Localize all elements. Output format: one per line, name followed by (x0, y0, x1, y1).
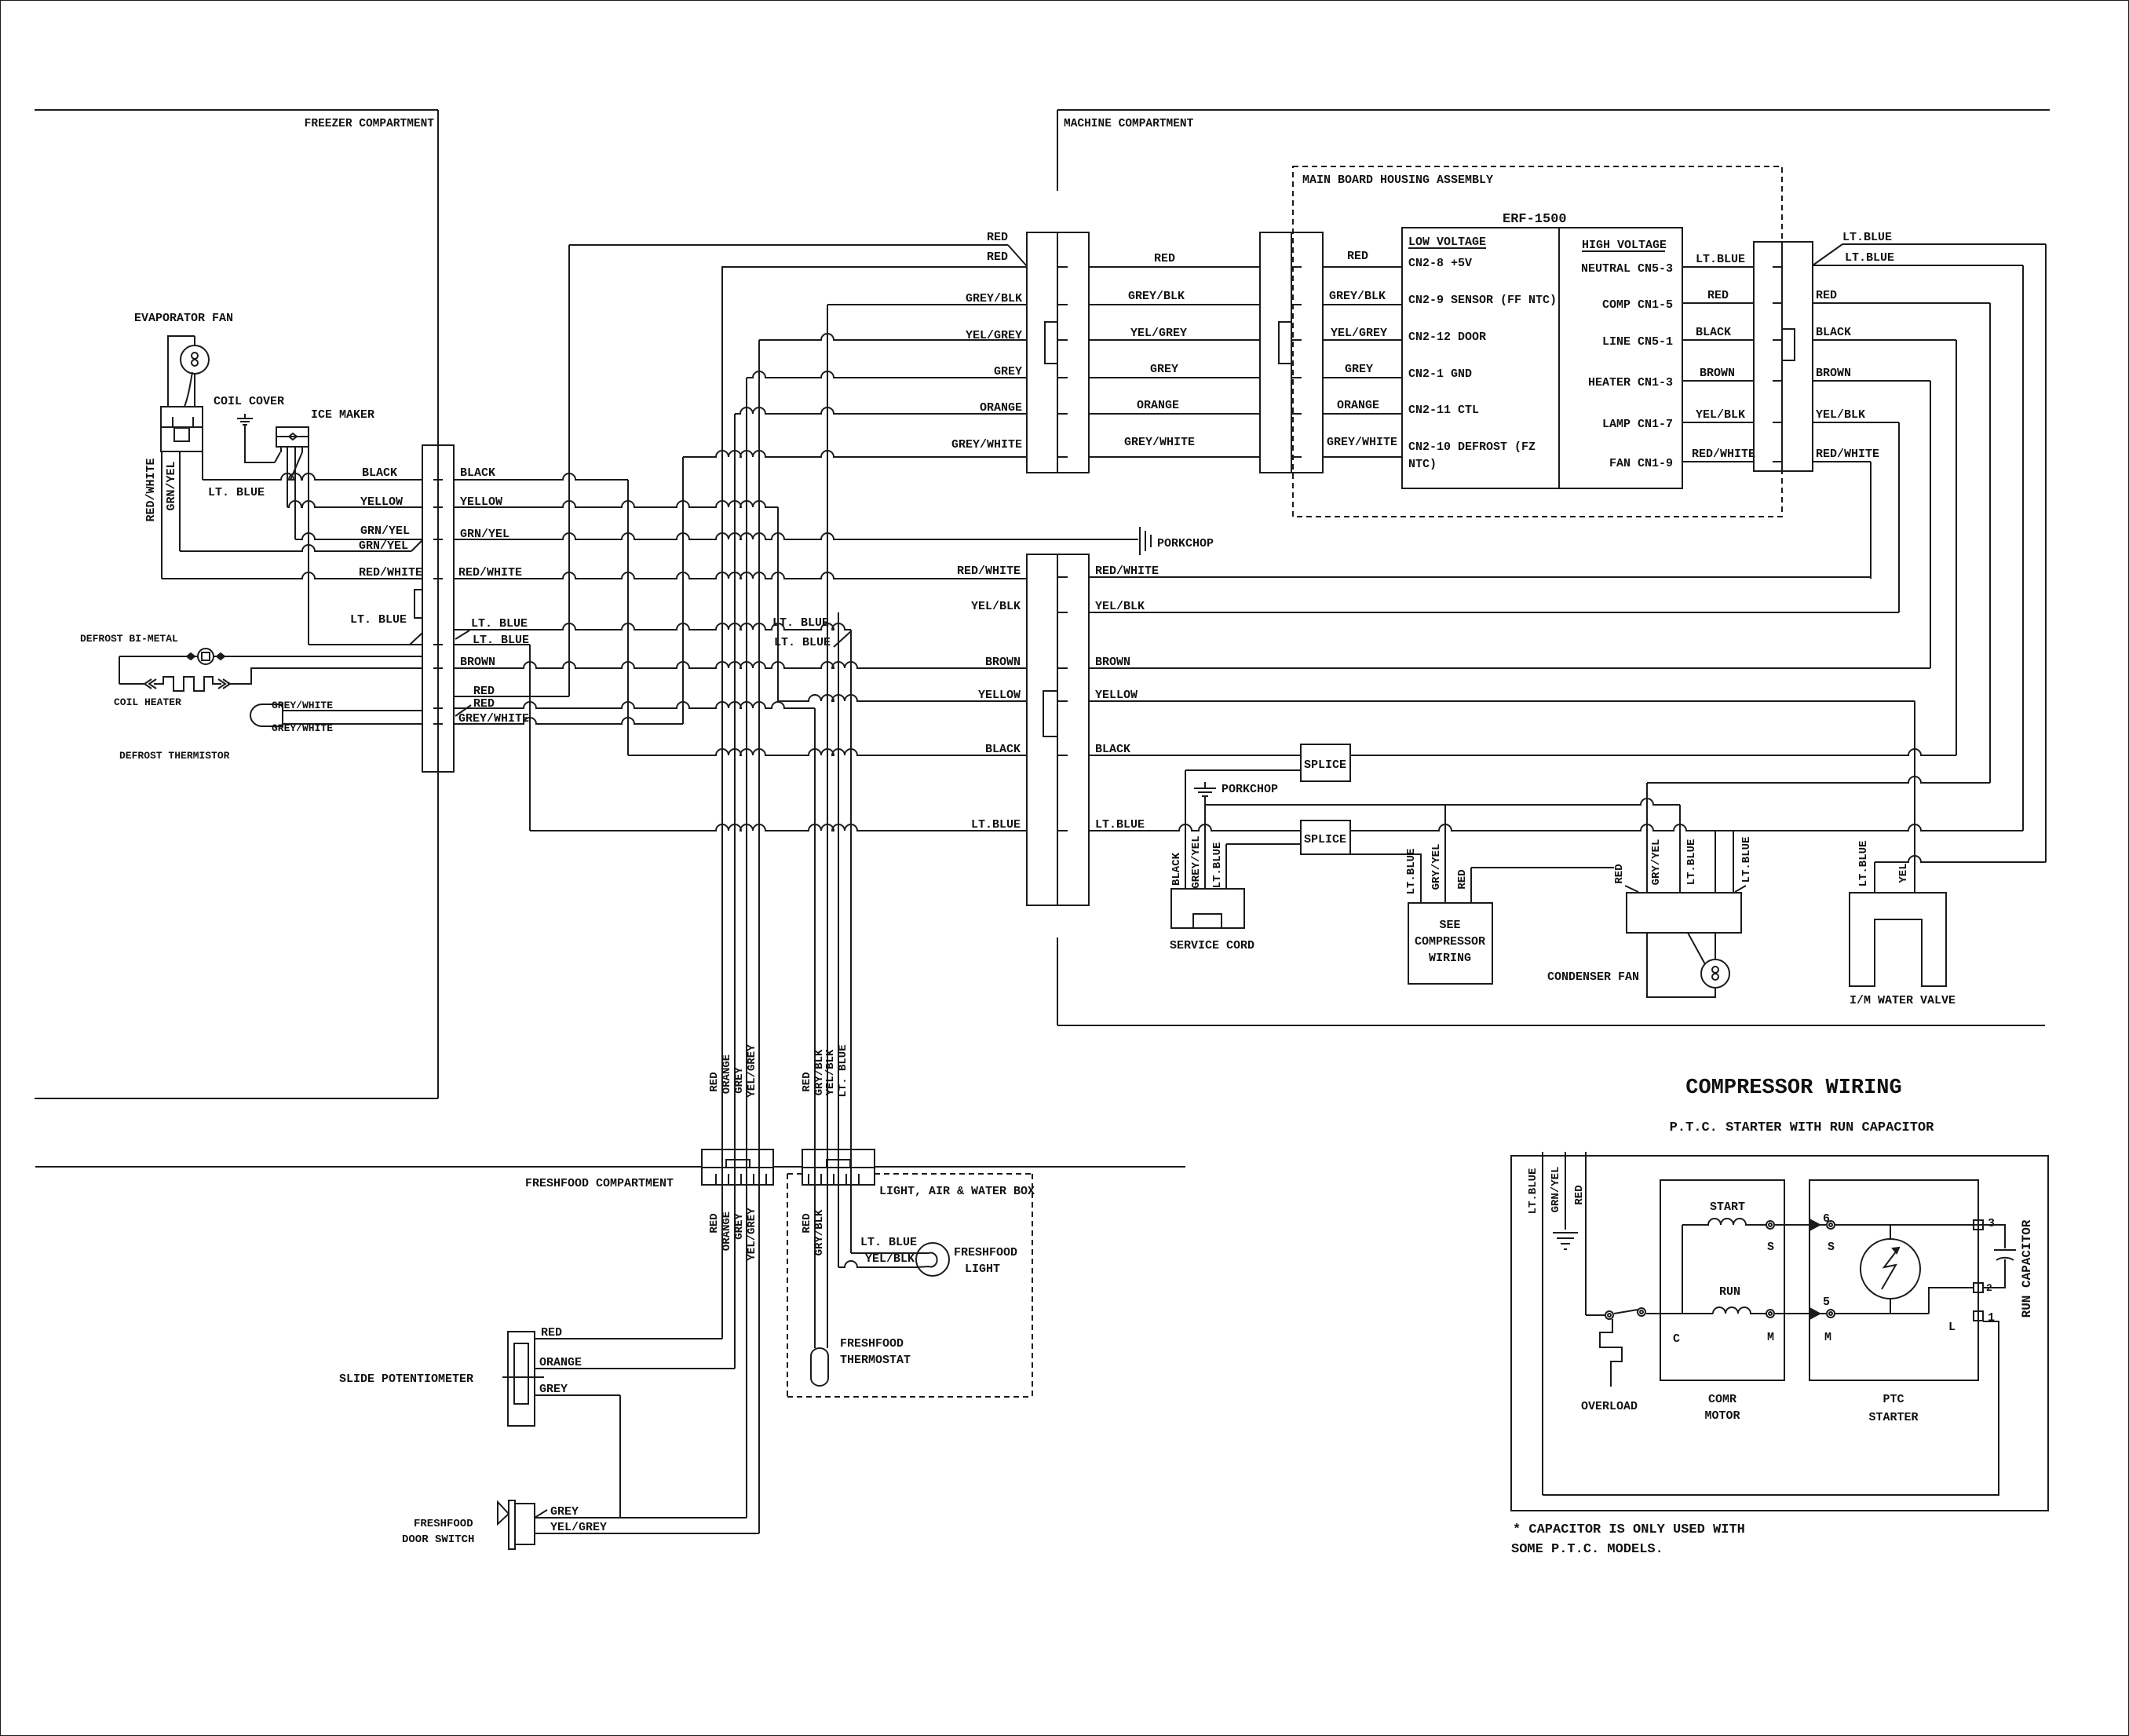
connector J2 (right half) (1057, 554, 1089, 905)
wire BLACK row splice S1 to right nest (1350, 749, 1956, 755)
wire RED stub ERF to C3 (1682, 302, 1754, 304)
wire run capacitor top (1978, 1225, 2005, 1248)
svg-text:RED: RED (987, 231, 1008, 244)
motor contact S (1766, 1221, 1774, 1229)
wire ORANGE row C1b to ERF board (1323, 413, 1402, 415)
wire YEL/BLK stub ERF to C3 (1682, 422, 1754, 423)
wire LT.BLUE drop to condenser fan pin 3 (1715, 831, 1716, 893)
svg-text:* CAPACITOR IS ONLY USED WITH: * CAPACITOR IS ONLY USED WITH (1513, 1522, 1745, 1537)
compressor wiring outer box (1511, 1156, 2048, 1511)
svg-text:RED: RED (1707, 289, 1729, 302)
svg-text:LT. BLUE: LT. BLUE (772, 616, 829, 630)
evaporator fan motor M1 lead curve (184, 372, 192, 407)
wire LT.BLUE row J2 to splice S2 (1089, 824, 1301, 831)
wire diagonal porkchop to ice maker pin (275, 452, 280, 462)
connector C1 center line (1057, 232, 1058, 473)
wire BLACK row J1 to drop (454, 473, 628, 480)
svg-text:RED: RED (1816, 289, 1837, 302)
svg-text:LT. BLUE: LT. BLUE (860, 1236, 917, 1249)
start winding coil (1682, 1219, 1766, 1225)
svg-text:6: 6 (1823, 1212, 1830, 1226)
wire RED potentiometer row (535, 1338, 722, 1339)
ice maker body (276, 427, 309, 447)
wire GRN/YEL diagonal into connector (411, 540, 422, 551)
svg-text:GRN/YEL: GRN/YEL (1550, 1167, 1562, 1213)
svg-text:LT.BLUE: LT.BLUE (1685, 839, 1698, 886)
service cord body (1171, 889, 1244, 928)
svg-text:RED: RED (801, 1213, 813, 1233)
slide potentiometer body (508, 1332, 535, 1426)
wire YELLOW row J2 to water valve drop (1089, 700, 1915, 702)
freshfood light filament (916, 1253, 937, 1268)
svg-text:HEATER CN1-3: HEATER CN1-3 (1588, 376, 1673, 389)
wire ORANGE bundle A vertical (734, 414, 736, 1369)
svg-text:BLACK: BLACK (1170, 852, 1183, 886)
wire RED bundle A vertical (721, 266, 723, 1339)
svg-text:GREY: GREY (994, 365, 1022, 378)
connector C1b (left half) (1260, 232, 1291, 473)
wire GRY/YEL drop to condenser fan pin 2 (1679, 805, 1681, 893)
porkchop ground symbol (freezer) (237, 414, 253, 425)
splice S1 box (1301, 744, 1350, 781)
svg-text:FRESHFOOD: FRESHFOOD (414, 1518, 473, 1530)
svg-text:BROWN: BROWN (1700, 367, 1735, 380)
svg-text:GREY/WHITE: GREY/WHITE (1327, 436, 1397, 449)
svg-text:ICE MAKER: ICE MAKER (311, 408, 374, 422)
svg-text:GREY/YEL: GREY/YEL (1190, 835, 1203, 888)
wire LT.BLUE drop to condenser fan pin 4 (1733, 831, 1734, 893)
machine compartment border bottom (1057, 1025, 2045, 1026)
connector J1 defrost (right half) (438, 445, 454, 772)
light air water box dashed (top) (787, 1173, 802, 1175)
freezer compartment border top (35, 109, 438, 111)
condenser fan motor winding glyph (1712, 967, 1718, 973)
wire YEL/BLK vertical (1898, 422, 1900, 612)
wire RED/WHITE row to defrost connector (162, 572, 422, 579)
condenser fan motor loop (1647, 933, 1715, 997)
svg-text:YELLOW: YELLOW (360, 495, 403, 509)
wire BROWN vertical (1930, 381, 1931, 668)
evaporator fan motor M1 lead (194, 336, 195, 407)
wire RED vertical (1989, 303, 1991, 783)
svg-text:BLACK: BLACK (362, 466, 397, 480)
svg-text:SOME P.T.C. MODELS.: SOME P.T.C. MODELS. (1511, 1542, 1663, 1557)
wire GREY row C1 to C1b (1089, 377, 1260, 378)
svg-text:THERMOSTAT: THERMOSTAT (840, 1354, 911, 1367)
wire BLACK row out of C3 (1813, 339, 1956, 341)
wire LT.BLUE service cord riser (1225, 844, 1227, 889)
wire BLACK service cord riser (1185, 770, 1186, 889)
freshfood thermostat capsule (811, 1348, 828, 1386)
svg-text:DEFROST THERMISTOR: DEFROST THERMISTOR (119, 750, 230, 762)
wire LT.BLUE from coil cover / BLACK row to connector (202, 451, 203, 480)
run winding coil (1713, 1307, 1766, 1314)
wire GREY/WHITE row C1 to C1b (1089, 456, 1260, 458)
svg-text:CN2-11 CTL: CN2-11 CTL (1408, 404, 1479, 417)
porkchop ground symbol P2 (1194, 782, 1216, 796)
condenser fan box (1627, 893, 1741, 933)
wire GRY/YEL porkchop stem (1204, 796, 1206, 889)
wire YELLOW drop to water valve YEL pin (1914, 701, 1915, 893)
wire BLACK row to connector J2 (628, 749, 1027, 755)
wire ice maker diagonal to LT.BLUE/BLACK junction (290, 452, 302, 480)
wire GREY/WHITE thermistor upper (283, 710, 422, 711)
svg-text:RED: RED (1613, 864, 1626, 883)
wire YEL/BLK bundle B vertical (838, 612, 839, 1267)
svg-text:RED/WHITE: RED/WHITE (957, 565, 1021, 578)
svg-text:RED/WHITE: RED/WHITE (458, 566, 522, 579)
wire LT.BLUE top row to far right (1842, 243, 2046, 245)
svg-text:LOW VOLTAGE: LOW VOLTAGE (1408, 236, 1486, 249)
machine compartment border left upper (1057, 110, 1058, 191)
wire RED row right nest to condenser fan (1647, 777, 1990, 783)
ERF-1500 board box (1402, 228, 1682, 488)
svg-text:RED: RED (1154, 252, 1175, 265)
svg-text:LT. BLUE: LT. BLUE (774, 636, 831, 649)
wire YEL/GREY row C1 to C1b (1089, 339, 1260, 341)
connector C1b ticks (1291, 266, 1302, 268)
freezer compartment border bottom (35, 1098, 438, 1099)
svg-text:GREY: GREY (539, 1383, 568, 1396)
connector J2 ticks (1057, 576, 1068, 578)
svg-text:PORKCHOP: PORKCHOP (1222, 783, 1278, 796)
wire GREY row door switch (535, 1517, 747, 1519)
svg-text:GREY: GREY (1150, 363, 1178, 376)
svg-text:YELLOW: YELLOW (1095, 689, 1138, 702)
freshfood door switch flag (498, 1502, 509, 1524)
wire RED/WHITE row out of C3 (1813, 461, 1871, 462)
svg-text:BROWN: BROWN (1816, 367, 1851, 380)
connector J2 center line (1057, 554, 1058, 905)
svg-text:LT. BLUE: LT. BLUE (208, 486, 265, 499)
svg-text:FAN CN1-9: FAN CN1-9 (1609, 457, 1673, 470)
wire BLACK vertical drop (627, 480, 629, 755)
wire YEL/GREY row C1b to ERF board (1323, 339, 1402, 341)
wire GREY diagonal at door switch (535, 1510, 547, 1518)
connector J3 ticks (715, 1174, 717, 1185)
wire LT.BLUE row out of C3 (1813, 265, 2023, 266)
see compressor wiring box (1408, 903, 1492, 984)
wire LT.BLUE-2 row J1 to drop (454, 644, 530, 645)
motor contact M (1766, 1310, 1774, 1318)
svg-text:P.T.C. STARTER WITH RUN CAPACI: P.T.C. STARTER WITH RUN CAPACITOR (1670, 1120, 1934, 1135)
wire coil heater to BROWN row (228, 668, 422, 684)
svg-text:RED: RED (801, 1072, 813, 1091)
svg-text:L: L (1948, 1321, 1956, 1334)
wire YEL/BLK row to freshfood light (838, 1261, 916, 1267)
svg-text:ORANGE: ORANGE (1137, 399, 1179, 412)
svg-text:COIL HEATER: COIL HEATER (114, 696, 181, 708)
wire GREY row C1b to ERF board (1323, 377, 1402, 378)
svg-text:EVAPORATOR FAN: EVAPORATOR FAN (134, 312, 233, 325)
svg-text:LT.BLUE: LT.BLUE (1405, 849, 1418, 895)
wire YEL/GREY bundle A vertical (758, 340, 760, 1533)
PTC contact 5 (1827, 1310, 1835, 1318)
connector J1 notch (414, 590, 422, 618)
wire LT.BLUE row to connector J2 (530, 824, 1027, 831)
svg-text:LT.BLUE: LT.BLUE (1842, 231, 1892, 244)
svg-text:ORANGE: ORANGE (721, 1054, 733, 1094)
svg-text:LT.BLUE: LT.BLUE (1696, 253, 1745, 266)
svg-text:FRESHFOOD: FRESHFOOD (954, 1246, 1017, 1259)
svg-text:ERF-1500: ERF-1500 (1503, 212, 1567, 227)
svg-text:GRN/YEL: GRN/YEL (165, 461, 178, 510)
wire RED-a riser to connector C1 (568, 245, 570, 696)
wire LT.BLUE row splice S2 to right nest (1350, 824, 2023, 831)
svg-text:NEUTRAL CN5-3: NEUTRAL CN5-3 (1581, 262, 1673, 276)
connector C3 (right half) (1782, 242, 1813, 471)
svg-text:YEL/BLK: YEL/BLK (1696, 408, 1745, 422)
terminal 2 square (1974, 1283, 1983, 1292)
wire RED/WHITE stub ERF to C3 (1682, 461, 1754, 462)
svg-text:FRESHFOOD COMPARTMENT: FRESHFOOD COMPARTMENT (525, 1177, 674, 1190)
wire RED row to condenser fan feed (1471, 867, 1614, 868)
splice S2 box (1301, 820, 1350, 854)
svg-text:RED/WHITE: RED/WHITE (359, 566, 422, 579)
wire GRY/YEL tap to compressor box (1444, 805, 1446, 903)
svg-text:SPLICE: SPLICE (1304, 758, 1346, 772)
svg-text:YEL/GREY: YEL/GREY (1130, 327, 1187, 340)
svg-text:LT.BLUE: LT.BLUE (1857, 841, 1870, 887)
wire LT.BLUE compressor vertical (1542, 1152, 1543, 1495)
svg-text:MOTOR: MOTOR (1704, 1409, 1740, 1423)
connector J2 (left half) (1027, 554, 1057, 905)
main board housing assembly dashed box (1293, 166, 1782, 517)
svg-text:OVERLOAD: OVERLOAD (1581, 1400, 1638, 1413)
svg-text:RED: RED (708, 1072, 721, 1091)
I/M water valve body (1850, 893, 1946, 986)
wire porkchop stem to ice maker (245, 425, 275, 462)
freshfood compartment border (35, 1166, 702, 1168)
arrow into PTC 5 (1809, 1308, 1820, 1319)
wire RED/WHITE vertical (1870, 462, 1872, 579)
condenser fan motor lead diagonal (1688, 933, 1705, 964)
svg-text:LT. BLUE: LT. BLUE (350, 613, 407, 627)
svg-text:HIGH VOLTAGE: HIGH VOLTAGE (1582, 239, 1667, 252)
wire ORANGE potentiometer row (535, 1368, 735, 1369)
svg-text:BLACK: BLACK (1816, 326, 1851, 339)
svg-text:STARTER: STARTER (1868, 1411, 1918, 1424)
connector C1 ticks (1057, 266, 1068, 268)
svg-text:S: S (1767, 1241, 1774, 1254)
svg-text:LINE CN5-1: LINE CN5-1 (1602, 335, 1673, 349)
svg-text:WIRING: WIRING (1429, 952, 1471, 965)
wire LT. BLUE diagonal into connector (410, 633, 422, 645)
wire RED row bundle A to C1 (722, 266, 1027, 268)
svg-text:3: 3 (1988, 1217, 1995, 1230)
svg-text:ORANGE: ORANGE (539, 1356, 582, 1369)
coil cover body (161, 407, 203, 451)
svg-text:PTC: PTC (1883, 1393, 1904, 1406)
wire RED riser from compressor box (1470, 868, 1472, 903)
connector C3 ticks (1773, 266, 1782, 268)
connector J2 notch (1043, 691, 1057, 736)
wire GREY/WHITE riser (682, 457, 684, 724)
wire GRN/YEL row J1 to porkchop (454, 533, 1138, 539)
wire LT.BLUE far right vertical (2045, 244, 2047, 862)
run capacitor plates (1994, 1250, 2016, 1260)
ice maker divider (276, 436, 309, 437)
svg-text:GREY/WHITE: GREY/WHITE (951, 438, 1022, 451)
svg-text:YEL/BLK: YEL/BLK (971, 600, 1021, 613)
wire PTC bottom rail (1835, 1313, 1929, 1314)
freshfood door switch body (509, 1500, 515, 1549)
svg-text:YEL/BLK: YEL/BLK (1816, 408, 1865, 422)
wire RED row C1 to C1b (1089, 266, 1260, 268)
svg-text:LT. BLUE: LT. BLUE (837, 1044, 849, 1097)
wire RED-b row J1 to bundle B (454, 702, 815, 708)
svg-text:START: START (1710, 1201, 1745, 1214)
svg-text:ORANGE: ORANGE (1337, 399, 1379, 412)
svg-text:I/M WATER VALVE: I/M WATER VALVE (1850, 994, 1956, 1007)
evaporator fan motor M1 winding glyph (192, 353, 198, 359)
wire GRY/BLK bundle B vertical (827, 305, 828, 1348)
svg-text:S: S (1828, 1241, 1835, 1254)
wire LT.BLUE bundle B vertical (850, 630, 852, 1253)
svg-text:RED/WHITE: RED/WHITE (144, 458, 158, 521)
svg-text:COIL COVER: COIL COVER (214, 395, 284, 408)
condenser fan RED pin diagonal (1625, 886, 1638, 892)
wire YELLOW row to connector J2 (778, 695, 1027, 701)
svg-text:FRESHFOOD: FRESHFOOD (840, 1337, 904, 1350)
wire RED/WHITE coil cover drop (161, 451, 163, 579)
svg-text:C: C (1673, 1332, 1680, 1346)
overload protector element (1600, 1319, 1622, 1387)
svg-text:CN2-12 DOOR: CN2-12 DOOR (1408, 331, 1486, 344)
wire BROWN row J2 to right nest (1089, 667, 1930, 669)
wire RED-a diagonal into C1 (1008, 245, 1027, 266)
PTC contact 6 (1827, 1221, 1835, 1229)
wire GREY/BLK row C1b to ERF board (1323, 304, 1402, 305)
svg-text:GREY/BLK: GREY/BLK (1329, 290, 1386, 303)
wire BLACK vertical (1956, 340, 1957, 755)
defrost thermistor capsule (250, 704, 283, 726)
svg-text:RED: RED (541, 1326, 562, 1339)
svg-text:RUN CAPACITOR: RUN CAPACITOR (2020, 1219, 2034, 1318)
wire main line RED to overload contact (1586, 1314, 1605, 1316)
light air water box dashed (right) (1032, 1174, 1033, 1397)
svg-text:CN2-8 +5V: CN2-8 +5V (1408, 257, 1472, 270)
wire GREY row bundle A to C1 (747, 371, 1027, 378)
svg-text:YEL/GREY: YEL/GREY (746, 1044, 758, 1098)
svg-text:RED/WHITE: RED/WHITE (1095, 565, 1159, 578)
wire LT.BLUE bottom row to water valve (1875, 856, 2046, 862)
svg-text:YEL/GREY: YEL/GREY (550, 1521, 607, 1534)
svg-text:GREY/BLK: GREY/BLK (1128, 290, 1185, 303)
evaporator fan motor M1 frame (168, 336, 195, 407)
wire GRN/YEL 2nd row to defrost connector (180, 545, 411, 551)
svg-text:RED/WHITE: RED/WHITE (1816, 448, 1879, 461)
wire LT.BLUE service cord to splice S2 (1226, 843, 1301, 845)
compressor motor box (1660, 1180, 1784, 1380)
svg-text:LT.BLUE: LT.BLUE (1211, 842, 1224, 889)
wire GRN/YEL compressor vertical (1565, 1152, 1566, 1230)
svg-text:MACHINE COMPARTMENT: MACHINE COMPARTMENT (1064, 118, 1194, 130)
svg-text:BROWN: BROWN (460, 656, 495, 669)
svg-text:YEL/BLK: YEL/BLK (824, 1049, 837, 1095)
condenser fan motor stem (1715, 933, 1716, 959)
light air water box dashed (left) (787, 1174, 788, 1397)
coil cover ticks (173, 417, 193, 427)
svg-text:BLACK: BLACK (985, 743, 1021, 756)
wire GREY drop to door switch row (619, 1395, 621, 1518)
machine compartment border left lower (1057, 937, 1058, 1025)
svg-text:CN2-10 DEFROST (FZ: CN2-10 DEFROST (FZ (1408, 440, 1536, 454)
wire GREY/WHITE row J1 to riser (454, 718, 683, 724)
svg-text:GRY/BLK: GRY/BLK (813, 1209, 826, 1255)
svg-text:LT.BLUE: LT.BLUE (1845, 251, 1894, 265)
machine compartment border top (1057, 109, 2050, 111)
svg-text:SPLICE: SPLICE (1304, 833, 1346, 846)
wire RED-a row J1 to riser (454, 696, 569, 697)
svg-text:COMPRESSOR WIRING: COMPRESSOR WIRING (1685, 1076, 1901, 1100)
wire RED row out of C3 (1813, 302, 1990, 304)
wire LT.BLUE drop to water valve LT.BLUE pin (1874, 862, 1875, 893)
svg-text:PORKCHOP: PORKCHOP (1157, 537, 1214, 550)
wire BLACK stub ERF to C3 (1682, 339, 1754, 341)
terminal 3 square (1974, 1220, 1983, 1230)
svg-text:MAIN BOARD HOUSING ASSEMBLY: MAIN BOARD HOUSING ASSEMBLY (1302, 174, 1493, 187)
ice maker pin stubs (281, 447, 302, 452)
wire ORANGE row C1 to C1b (1089, 413, 1260, 415)
PTC thermistor circle (1861, 1239, 1920, 1299)
wire RED/WHITE row J2 to right nest (1089, 576, 1871, 578)
PTC thermistor zigzag (1882, 1248, 1899, 1289)
slide potentiometer track (514, 1343, 528, 1404)
slide potentiometer wiper (502, 1376, 544, 1378)
coil cover divider (161, 426, 203, 428)
wire GREY/WHITE row C1b to ERF board (1323, 456, 1402, 458)
svg-text:M: M (1824, 1331, 1831, 1344)
freshfood light lamp circle (916, 1243, 949, 1276)
svg-text:YEL/BLK: YEL/BLK (1095, 600, 1145, 613)
overload contact A (1605, 1311, 1613, 1319)
wire GREY potentiometer row (535, 1394, 620, 1396)
svg-text:M: M (1767, 1331, 1774, 1344)
wire LT. BLUE row to freshfood light (851, 1252, 916, 1254)
condenser fan LT.BLUE pin diagonal (1735, 886, 1746, 892)
wire contact B to run winding (1646, 1313, 1713, 1314)
svg-text:SERVICE CORD: SERVICE CORD (1170, 939, 1254, 952)
svg-text:RED: RED (1573, 1185, 1586, 1204)
wire GREY bundle A vertical (746, 378, 747, 1518)
wire LT.BLUE-1 corner diagonal near bundle (834, 631, 851, 647)
svg-text:RED/WHITE: RED/WHITE (1692, 448, 1755, 461)
wire splice S2 output to compressor box (1350, 854, 1421, 903)
svg-text:DOOR SWITCH: DOOR SWITCH (402, 1533, 474, 1546)
wire BROWN row J1 to connector J2 (454, 662, 1027, 668)
wire RED bundle B vertical (814, 708, 816, 1348)
svg-text:DEFROST BI-METAL: DEFROST BI-METAL (80, 633, 178, 645)
wire RED row C1b to ERF board (1323, 266, 1402, 268)
condenser fan motor circle (1701, 959, 1729, 988)
wire BROWN stub ERF to C3 (1682, 380, 1754, 382)
svg-text:SEE: SEE (1439, 919, 1460, 932)
connector C1 (left half) (1027, 232, 1057, 473)
wire YELLOW vertical drop (777, 507, 779, 701)
svg-text:YEL/GREY: YEL/GREY (746, 1208, 758, 1261)
motor internal vertical (1682, 1225, 1683, 1314)
defrost bi-metal thermostat symbol (198, 649, 214, 664)
wire YEL/BLK row J2 to right nest (1089, 612, 1899, 613)
wire GREY/WHITE row riser to C1 (683, 451, 1027, 457)
arrow into PTC 6 (1809, 1219, 1820, 1230)
svg-text:CONDENSER FAN: CONDENSER FAN (1547, 970, 1639, 984)
porkchop symbol P1 (1140, 527, 1151, 555)
wire bottom loop LT.BLUE to terminal 1 (1543, 1321, 1999, 1495)
connector J4 ticks (808, 1174, 809, 1185)
light air water box dashed (bottom) (787, 1396, 1032, 1398)
